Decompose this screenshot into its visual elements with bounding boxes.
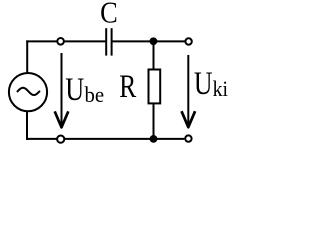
node: output terminal top (open circle) — [185, 38, 191, 44]
svg-text:U: U — [65, 73, 84, 108]
svg-text:ki: ki — [213, 76, 229, 101]
wire: resistor branch vertical (top junction to bottom junction) — [153, 41, 155, 139]
svg-text:U: U — [194, 66, 213, 102]
capacitor C1: right plate — [111, 28, 113, 55]
arrow: output voltage U_ki (head) — [182, 111, 196, 127]
resistor R1: body rectangle — [149, 70, 161, 104]
voltage source G1: sine wave symbol — [18, 88, 40, 95]
arrow: output voltage U_ki (shaft) — [187, 55, 189, 125]
voltage source G1: circle body — [9, 73, 47, 111]
arrow: input voltage U_be (shaft) — [61, 53, 63, 126]
svg-text:C: C — [100, 0, 118, 30]
svg-text:be: be — [85, 82, 105, 107]
wire: top rail left segment (corner to capacitor left plate) — [26, 40, 105, 42]
node: input terminal bottom (open circle) — [57, 136, 64, 143]
node: output terminal bottom (open circle) — [185, 135, 191, 141]
wire: bottom rail (corner to output terminal) — [26, 138, 184, 140]
svg-text:R: R — [119, 69, 136, 105]
junction dot: resistor branch / top rail — [150, 37, 158, 45]
arrow: input voltage U_be (head) — [55, 111, 69, 127]
node: input terminal top (open circle) — [57, 38, 64, 45]
capacitor C1: left plate — [105, 28, 107, 55]
junction dot: resistor branch / bottom rail — [150, 135, 158, 143]
wire: left vertical, source bottom down to bottom rail corner — [26, 112, 28, 140]
wire: top rail right segment (capacitor right plate to output terminal) — [112, 40, 184, 42]
wire: left vertical, top rail corner down to source top — [26, 40, 28, 72]
